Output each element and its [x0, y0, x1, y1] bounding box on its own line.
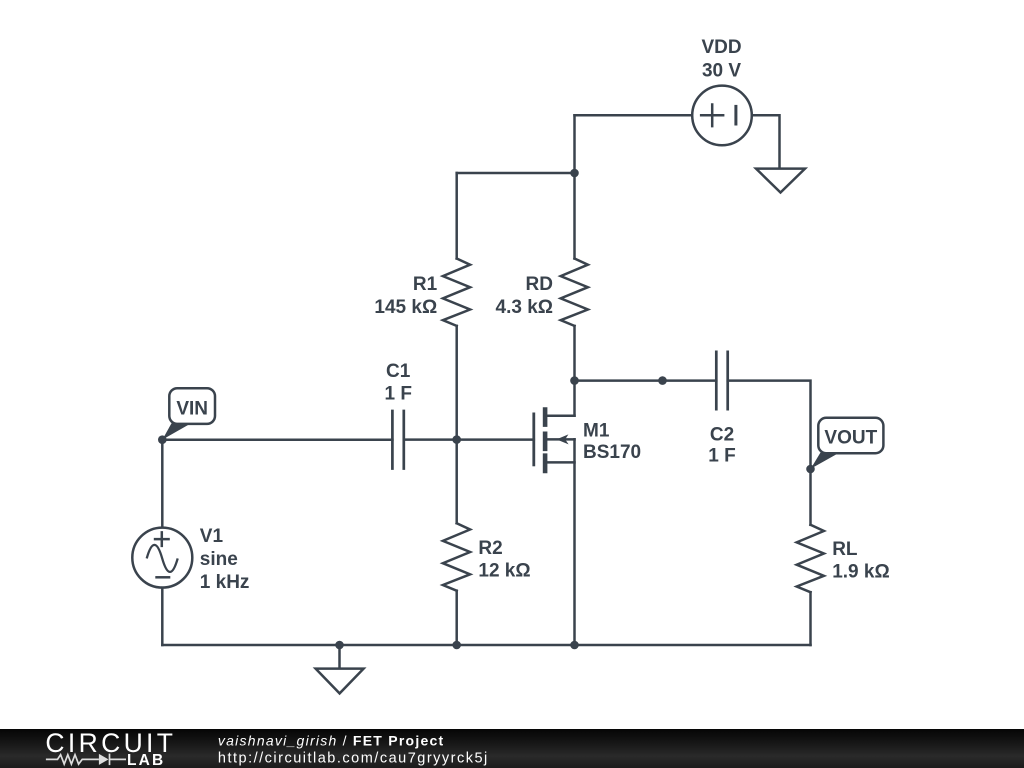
svg-text:30 V: 30 V [702, 61, 741, 82]
label C2 1 F [708, 424, 735, 466]
svg-text:4.3 kΩ: 4.3 kΩ [496, 297, 554, 318]
svg-text:VOUT: VOUT [824, 427, 877, 448]
wire VIN to V1 [161, 440, 164, 528]
svg-text:VIN: VIN [176, 399, 208, 420]
ground (main) [316, 645, 364, 693]
svg-text:145 kΩ: 145 kΩ [374, 297, 437, 318]
node junction drain [570, 376, 579, 385]
node junction rail-M1 [570, 641, 579, 650]
voltage source V1 [132, 528, 192, 588]
flag VIN [162, 388, 215, 439]
svg-text:R1: R1 [413, 274, 438, 295]
wire VDD to ground [752, 115, 780, 167]
wire gate [404, 438, 534, 441]
svg-text:1 kHz: 1 kHz [200, 572, 250, 593]
svg-text:VDD: VDD [701, 37, 741, 58]
svg-text:RL: RL [832, 539, 858, 560]
svg-text:V1: V1 [200, 526, 224, 547]
wire top cross [457, 172, 575, 175]
wire V1 to rail [161, 588, 164, 645]
label VIN [176, 399, 208, 420]
svg-text:R2: R2 [478, 538, 502, 559]
wire top rail to VDD [575, 114, 693, 117]
svg-text:BS170: BS170 [583, 442, 641, 463]
svg-text:12 kΩ: 12 kΩ [478, 561, 530, 582]
svg-text:LAB: LAB [127, 752, 165, 768]
capacitor C1 [392, 410, 403, 470]
svg-text:1 F: 1 F [708, 446, 735, 467]
svg-text:1.9 kΩ: 1.9 kΩ [832, 562, 890, 583]
capacitor C2 [716, 351, 727, 411]
resistor R1 [443, 173, 470, 440]
label M1 BS170 [583, 420, 641, 463]
wire bottom rail [162, 644, 810, 647]
footer bar [0, 729, 1024, 768]
node junction top [570, 169, 579, 178]
ground (VDD return) [756, 169, 805, 193]
flag VOUT [811, 418, 884, 469]
resistor RD [561, 173, 588, 381]
node junction output wire [658, 376, 667, 385]
node junction VOUT [806, 465, 815, 474]
svg-text:sine: sine [200, 549, 238, 570]
svg-text:vaishnavi_girish / FET Project: vaishnavi_girish / FET Project [218, 733, 445, 749]
transistor M1 [534, 381, 575, 645]
label R1 145 kOhm [374, 274, 437, 318]
wire C2 to VOUT [728, 381, 811, 469]
svg-text:M1: M1 [583, 420, 610, 441]
resistor RL [797, 469, 824, 645]
node junction VIN [158, 435, 167, 444]
logo squiggle resistor-diode [46, 754, 126, 766]
label R2 12 kOhm [478, 538, 530, 582]
voltage source VDD V2 [692, 86, 752, 146]
wire drain to C2 [575, 379, 717, 382]
wire input [162, 438, 392, 441]
label VOUT [824, 427, 877, 448]
resistor R2 [443, 440, 470, 645]
label VDD 30 V [701, 37, 741, 82]
label RD 4.3 kOhm [496, 274, 554, 318]
svg-text:C1: C1 [386, 361, 411, 382]
svg-text:RD: RD [526, 274, 553, 295]
label RL 1.9 kOhm [832, 539, 890, 583]
node junction gate [452, 435, 461, 444]
svg-text:C2: C2 [710, 424, 734, 445]
svg-text:1 F: 1 F [384, 383, 411, 404]
svg-text:http://circuitlab.com/cau7gryy: http://circuitlab.com/cau7gryyrck5j [218, 751, 489, 767]
node junction rail-gnd [335, 641, 344, 650]
label C1 1 F [384, 361, 411, 404]
wire VDD rail down [573, 115, 576, 173]
label V1 sine 1 kHz [200, 526, 250, 593]
node junction rail-R2 [452, 641, 461, 650]
